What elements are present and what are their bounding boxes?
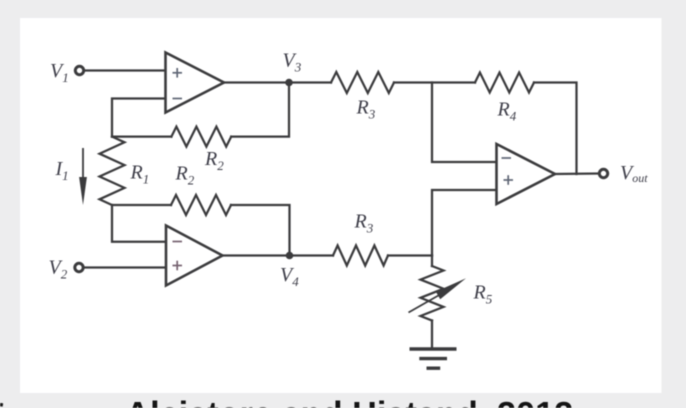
op-amp U1	[166, 53, 225, 113]
terminal Vout	[599, 169, 607, 177]
wire V2 to op-amp U2 + input	[84, 266, 166, 268]
wire R2a left lead	[112, 135, 171, 137]
wire U1 - input to left riser	[112, 99, 166, 137]
resistor R3 (top)	[331, 72, 394, 93]
node V3 junction dot	[285, 79, 293, 87]
op-amp U2	[166, 226, 223, 286]
current arrow I1	[79, 148, 87, 205]
wire lower junction to R5	[431, 256, 433, 267]
node V4 junction dot	[286, 252, 294, 260]
resistor R1 (vertical)	[100, 137, 125, 205]
resistor R2 (top feedback)	[171, 127, 231, 147]
wire R2b left lead	[112, 204, 171, 206]
resistor R3 (bottom)	[333, 246, 388, 266]
wiper arrow of R5	[409, 278, 467, 312]
wire R3b to lower junction	[388, 254, 432, 256]
op-amp U3	[497, 144, 556, 204]
resistor R2 (bottom feedback)	[171, 195, 231, 215]
resistor R4	[475, 73, 534, 93]
wire R2b right lead and drop to node V4	[231, 205, 290, 256]
wire top junction down to U3 - input	[432, 83, 497, 163]
wire U2 output through node V4 to R3b	[222, 254, 333, 256]
wire R2a right lead to V3 riser	[231, 83, 289, 137]
caption: Source: Alciatore and Histand, 2012 (cut off at bottom)	[0, 403, 3, 407]
wire U3 output to Vout terminal	[555, 172, 599, 175]
wire U2 - input to left riser	[112, 205, 166, 242]
ground	[410, 349, 457, 368]
wire R4 right lead down to output node	[534, 83, 577, 175]
wire R3a to R4	[394, 81, 475, 83]
wire U3 + input to lower junction	[432, 190, 497, 256]
wire U1 output to node V3 to R3a	[224, 81, 331, 83]
terminal V1	[75, 66, 83, 74]
svg-text:Alciatore and Histand, 2012: Alciatore and Histand, 2012	[125, 396, 573, 408]
resistor R5 (vertical, variable)	[421, 266, 444, 321]
terminal V2	[75, 263, 83, 271]
wire R5 to ground	[431, 321, 433, 349]
wire V1 to op-amp U1 + input	[85, 69, 166, 71]
